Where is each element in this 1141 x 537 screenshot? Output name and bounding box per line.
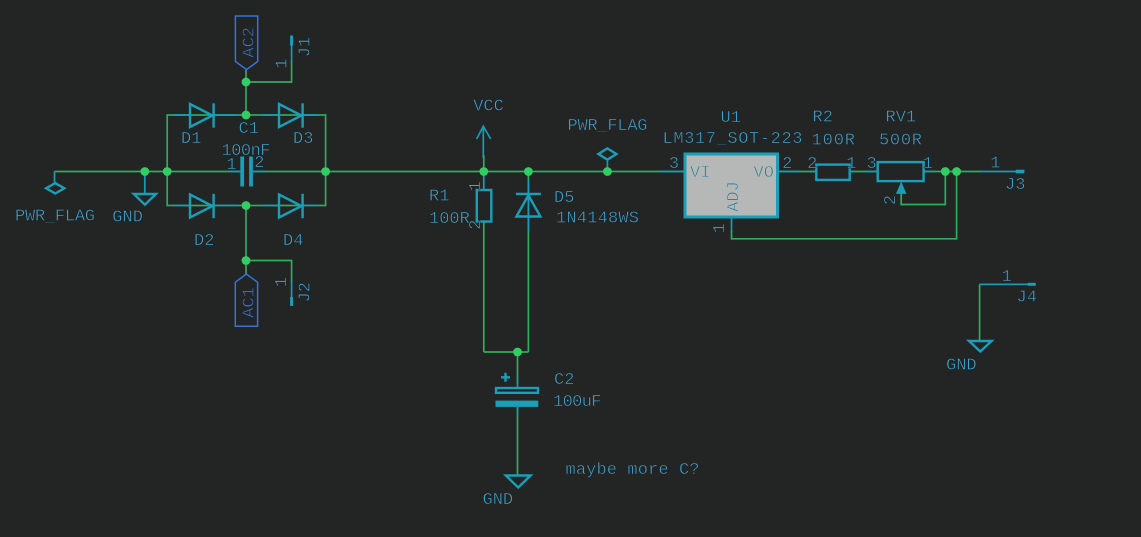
wire main rail C1 to U1 bbox=[253, 171, 685, 173]
svg-text:ADJ: ADJ bbox=[725, 181, 744, 212]
svg-text:D5: D5 bbox=[554, 189, 574, 208]
resistor R1 bbox=[477, 172, 492, 222]
potentiometer RV1 bbox=[866, 162, 934, 194]
svg-text:GND: GND bbox=[946, 357, 977, 376]
svg-text:3: 3 bbox=[866, 155, 876, 174]
svg-text:1: 1 bbox=[467, 181, 486, 191]
svg-text:D2: D2 bbox=[194, 232, 214, 251]
svg-text:1: 1 bbox=[923, 155, 933, 174]
wire J4 drop to GND bbox=[979, 284, 981, 341]
svg-text:1: 1 bbox=[846, 155, 856, 174]
svg-text:AC2: AC2 bbox=[241, 27, 260, 58]
wire C2 to GND bbox=[517, 407, 519, 476]
svg-text:2: 2 bbox=[782, 155, 792, 174]
diode D1 bbox=[173, 103, 237, 127]
svg-text:VO: VO bbox=[754, 164, 774, 183]
global label AC1 bbox=[235, 274, 259, 326]
op-amp U1 LM317 body bbox=[660, 154, 799, 232]
wire main rail RV1 to J3 bbox=[924, 171, 981, 173]
power symbol VCC bbox=[477, 126, 491, 158]
wire main rail U1 to R2 bbox=[778, 171, 817, 173]
ground GND left bbox=[134, 172, 156, 205]
svg-text:LM317_SOT-223: LM317_SOT-223 bbox=[663, 130, 803, 149]
capacitor C1 bbox=[231, 157, 266, 187]
connector J4 pin bbox=[980, 283, 1036, 286]
svg-text:J1: J1 bbox=[296, 37, 315, 57]
wire main rail R2 to RV1 bbox=[850, 171, 878, 173]
diode D3 bbox=[262, 103, 318, 127]
svg-text:R2: R2 bbox=[813, 109, 833, 128]
svg-text:2: 2 bbox=[807, 155, 817, 174]
wire J1 branch bbox=[246, 60, 292, 82]
svg-text:1: 1 bbox=[274, 58, 293, 68]
svg-text:100R: 100R bbox=[429, 210, 470, 229]
wire bridge bottom to AC1 bbox=[245, 206, 247, 275]
connector J2 pin bbox=[290, 280, 293, 306]
svg-text:1N4148WS: 1N4148WS bbox=[556, 210, 639, 229]
svg-text:1: 1 bbox=[990, 155, 1000, 174]
wire bridge rectangle rails bbox=[167, 115, 325, 206]
wire AC2 drop to bridge top bbox=[245, 70, 247, 115]
svg-text:PWR_FLAG: PWR_FLAG bbox=[568, 117, 648, 136]
svg-text:C1: C1 bbox=[239, 120, 259, 139]
capacitor C2 polarized bbox=[496, 373, 539, 415]
svg-text:RV1: RV1 bbox=[886, 109, 917, 128]
svg-text:1: 1 bbox=[226, 156, 236, 175]
svg-text:PWR_FLAG: PWR_FLAG bbox=[15, 208, 95, 227]
power flag PWR_FLAG right bbox=[598, 148, 616, 171]
svg-text:2: 2 bbox=[467, 220, 486, 230]
svg-text:500R: 500R bbox=[879, 132, 922, 151]
wire J2 branch bbox=[246, 261, 292, 283]
svg-text:D3: D3 bbox=[293, 130, 313, 149]
diode D2 bbox=[173, 194, 237, 218]
svg-text:100R: 100R bbox=[812, 132, 856, 151]
svg-text:AC1: AC1 bbox=[241, 287, 260, 318]
svg-text:J4: J4 bbox=[1017, 289, 1037, 308]
svg-text:VI: VI bbox=[690, 164, 710, 183]
resistor R2 bbox=[811, 165, 856, 180]
svg-text:2: 2 bbox=[254, 154, 264, 173]
svg-text:2: 2 bbox=[882, 195, 901, 205]
svg-text:GND: GND bbox=[112, 209, 143, 228]
wire VCC riser bbox=[483, 155, 485, 172]
svg-text:D1: D1 bbox=[181, 130, 201, 149]
connector J3 pin bbox=[980, 170, 1024, 174]
global label AC2 bbox=[235, 16, 259, 70]
svg-text:C2: C2 bbox=[554, 371, 574, 390]
svg-text:U1: U1 bbox=[721, 109, 741, 128]
wire R1 bottom drop bbox=[483, 222, 485, 353]
connector J1 pin bbox=[290, 36, 293, 63]
svg-text:1: 1 bbox=[1002, 268, 1012, 287]
svg-text:100uF: 100uF bbox=[553, 393, 602, 412]
svg-text:R1: R1 bbox=[429, 188, 449, 207]
ground GND right under J4 bbox=[969, 341, 992, 352]
svg-text:1: 1 bbox=[273, 277, 292, 287]
svg-text:VCC: VCC bbox=[473, 98, 504, 117]
ground GND under C2 bbox=[506, 476, 531, 488]
svg-text:maybe more C?: maybe more C? bbox=[566, 461, 700, 480]
wire main rail left segment bbox=[55, 171, 241, 173]
svg-text:J3: J3 bbox=[1005, 176, 1025, 195]
svg-text:GND: GND bbox=[483, 491, 514, 510]
svg-text:3: 3 bbox=[669, 155, 679, 174]
wire C2 drop from junction bbox=[517, 352, 519, 384]
wire D5 drop bbox=[527, 172, 529, 353]
power flag PWR_FLAG left bbox=[46, 172, 64, 194]
svg-text:D4: D4 bbox=[283, 232, 303, 251]
diode D5 bbox=[516, 180, 541, 232]
diode D4 bbox=[262, 194, 318, 218]
svg-text:1: 1 bbox=[711, 223, 730, 233]
svg-text:J2: J2 bbox=[296, 282, 315, 302]
wire RV1 wiper return bbox=[901, 172, 945, 205]
wire bottom link R1 to D5 bbox=[484, 351, 529, 353]
wire ADJ feedback U1 pin1 to rail bbox=[732, 172, 957, 239]
